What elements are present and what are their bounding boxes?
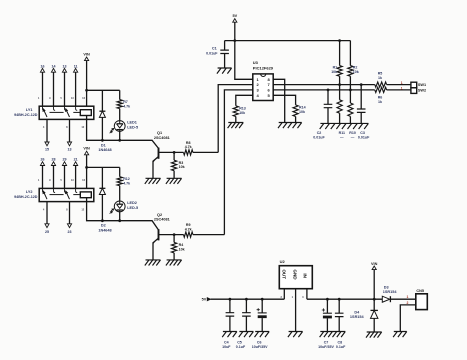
svg-text:VIN: VIN xyxy=(371,262,378,266)
regulator U2 xyxy=(279,266,312,289)
ground xyxy=(217,68,232,74)
wire base xyxy=(159,234,184,236)
resistor R11 xyxy=(337,100,342,113)
svg-text:R4: R4 xyxy=(179,243,184,247)
svg-text:C2: C2 xyxy=(317,131,322,135)
svg-text:1k: 1k xyxy=(378,100,382,104)
relay contact arm xyxy=(66,191,70,199)
svg-text:2SC4081: 2SC4081 xyxy=(154,136,170,140)
svg-text:LY1: LY1 xyxy=(26,108,33,112)
wire pin4 xyxy=(236,95,253,106)
diode D2 xyxy=(101,167,103,188)
connector SW1 xyxy=(411,82,417,88)
resistor R12 4.7k xyxy=(119,167,121,176)
svg-text:D2: D2 xyxy=(101,224,106,228)
capacitor C6 electrolytic xyxy=(261,299,263,313)
node xyxy=(261,298,264,301)
wire xyxy=(391,298,416,300)
node xyxy=(118,139,121,142)
wire IN pin xyxy=(306,289,308,300)
ground xyxy=(228,123,244,129)
resistor R4 10k xyxy=(173,235,175,243)
svg-text:VIN: VIN xyxy=(83,52,90,56)
ground bar xyxy=(320,332,346,338)
svg-text:LED-5: LED-5 xyxy=(127,206,138,210)
resistor R1 xyxy=(339,41,341,66)
svg-text:0.01uF: 0.01uF xyxy=(206,51,218,55)
svg-text:R1: R1 xyxy=(333,65,338,69)
svg-text:10k: 10k xyxy=(179,247,185,251)
svg-text:4.7k: 4.7k xyxy=(185,145,192,149)
relay LY1 coil xyxy=(80,110,91,116)
svg-text:R14: R14 xyxy=(299,106,306,110)
resistor R7 4.7k xyxy=(119,90,121,99)
wire rail xyxy=(87,166,120,168)
diode D1 xyxy=(101,90,103,111)
svg-text:C3: C3 xyxy=(360,131,365,135)
svg-text:5V: 5V xyxy=(232,14,237,18)
connector CN5 xyxy=(416,294,428,310)
ground xyxy=(393,332,407,338)
LED LED2 xyxy=(119,186,121,201)
resistor R13 xyxy=(233,106,238,117)
wire OUT pin xyxy=(283,289,285,300)
relay pin 13 xyxy=(69,119,71,142)
resistor R3 10k xyxy=(173,152,175,160)
transistor Q1 2SC4081 xyxy=(158,148,160,159)
relay LY2 coil xyxy=(80,192,91,198)
svg-text:1SR154: 1SR154 xyxy=(350,315,365,319)
node xyxy=(229,298,232,301)
ground xyxy=(166,178,182,184)
wire node xyxy=(87,119,159,148)
svg-text:1: 1 xyxy=(407,295,409,299)
diode D4 1SR154 xyxy=(371,309,378,311)
svg-text:Q1: Q1 xyxy=(157,131,162,135)
node xyxy=(373,298,376,301)
relay contact arm xyxy=(43,109,47,117)
ground xyxy=(222,332,237,338)
node xyxy=(85,89,88,92)
svg-text:23: 23 xyxy=(68,230,72,234)
wire pin2 xyxy=(218,85,253,153)
resistor R5 xyxy=(375,82,387,87)
svg-text:C7: C7 xyxy=(324,340,329,344)
svg-text:R2: R2 xyxy=(353,65,358,69)
relay contact arm xyxy=(43,191,47,199)
wire xyxy=(387,84,411,86)
svg-text:4.7k: 4.7k xyxy=(123,104,130,108)
svg-text:10k: 10k xyxy=(299,110,305,114)
svg-text:2: 2 xyxy=(407,301,409,305)
relay linkage xyxy=(50,194,64,196)
capacitor C7 electrolytic xyxy=(326,299,328,313)
svg-text:1SR154: 1SR154 xyxy=(383,290,398,294)
svg-text:4.7k: 4.7k xyxy=(185,227,192,231)
capacitor C1 xyxy=(224,41,226,51)
svg-text:R6: R6 xyxy=(378,96,383,100)
node xyxy=(245,298,248,301)
svg-text:15: 15 xyxy=(45,148,49,152)
wire base xyxy=(159,151,184,153)
svg-text:D1: D1 xyxy=(101,143,106,147)
svg-text:13: 13 xyxy=(68,148,72,152)
svg-text:10k: 10k xyxy=(179,165,185,169)
svg-text:Q2: Q2 xyxy=(157,213,162,217)
relay LY1 box xyxy=(39,106,94,119)
node xyxy=(233,39,236,42)
wire 5V rail xyxy=(225,40,351,42)
svg-text:U3: U3 xyxy=(253,60,259,65)
resistor R10 xyxy=(348,103,353,116)
svg-text:OUT: OUT xyxy=(281,269,286,279)
relay linkage xyxy=(50,111,64,113)
svg-text:C6: C6 xyxy=(257,340,262,344)
LED LED1 xyxy=(119,109,121,121)
svg-text:R7: R7 xyxy=(123,100,128,104)
svg-text:CN5: CN5 xyxy=(416,289,424,293)
ground xyxy=(239,332,254,338)
relay pin 15 xyxy=(46,119,48,142)
capacitor C3 xyxy=(360,85,362,109)
node xyxy=(338,298,341,301)
node xyxy=(101,219,104,222)
node xyxy=(85,166,88,169)
svg-text:C1: C1 xyxy=(212,46,217,50)
svg-text:D3: D3 xyxy=(384,285,389,289)
resistor R8 4.7k xyxy=(184,150,193,155)
wire GND pin xyxy=(295,289,297,332)
svg-text:0.1uF: 0.1uF xyxy=(236,345,246,349)
wire xyxy=(235,22,253,79)
ground xyxy=(288,332,303,338)
svg-text:5V: 5V xyxy=(202,298,207,302)
ground bar xyxy=(320,123,369,129)
relay pin 23 xyxy=(69,202,71,224)
svg-text:10k: 10k xyxy=(353,70,359,74)
wire node xyxy=(87,202,159,230)
svg-text:1: 1 xyxy=(401,81,403,85)
wire xyxy=(387,89,411,91)
svg-text:SW2: SW2 xyxy=(418,89,426,93)
capacitor C4 xyxy=(229,299,231,313)
svg-text:94BH-2C-12D: 94BH-2C-12D xyxy=(14,113,38,117)
resistor R14 xyxy=(293,105,298,117)
svg-text:1: 1 xyxy=(401,87,403,91)
svg-text:10k: 10k xyxy=(239,111,245,115)
svg-text:C4: C4 xyxy=(224,340,229,344)
relay contact arm xyxy=(66,109,70,117)
svg-text:R5: R5 xyxy=(378,72,383,76)
node xyxy=(326,298,329,301)
svg-text:—: — xyxy=(351,135,355,139)
ground xyxy=(166,260,182,266)
svg-text:R3: R3 xyxy=(179,161,184,165)
resistor R9 4.7k xyxy=(184,232,193,237)
svg-text:PIC12F629: PIC12F629 xyxy=(253,65,274,70)
capacitor C5 xyxy=(245,299,247,313)
node xyxy=(338,39,341,42)
svg-text:LED1: LED1 xyxy=(127,121,137,125)
svg-text:GND: GND xyxy=(293,269,298,280)
wire pin5 xyxy=(273,95,295,105)
node xyxy=(338,83,341,86)
svg-text:LED-5: LED-5 xyxy=(127,126,138,130)
node xyxy=(173,151,176,154)
ground xyxy=(278,123,302,129)
svg-text:10uF/35V: 10uF/35V xyxy=(318,345,334,349)
svg-text:0.1uF: 0.1uF xyxy=(336,345,346,349)
svg-text:25: 25 xyxy=(45,230,49,234)
transistor Q2 2SC4081 xyxy=(158,229,160,240)
svg-text:R11: R11 xyxy=(339,131,345,135)
wire pin8 xyxy=(273,79,285,122)
svg-text:—: — xyxy=(340,135,344,139)
node xyxy=(327,89,330,92)
wire pin3 xyxy=(224,90,252,235)
node xyxy=(173,233,176,236)
relay pin 25 xyxy=(46,202,48,224)
ground xyxy=(145,260,161,266)
svg-text:4.7k: 4.7k xyxy=(123,181,130,185)
relay LY2 box xyxy=(39,188,94,201)
wire xyxy=(211,298,285,300)
ground xyxy=(145,178,161,184)
svg-text:C5: C5 xyxy=(237,340,242,344)
svg-text:C8: C8 xyxy=(337,340,342,344)
svg-text:SW1: SW1 xyxy=(418,83,426,87)
svg-text:1N4648: 1N4648 xyxy=(98,228,111,232)
svg-text:1N4648: 1N4648 xyxy=(98,148,111,152)
svg-text:2SC4081: 2SC4081 xyxy=(154,217,170,221)
wire xyxy=(193,234,225,236)
svg-text:IN: IN xyxy=(303,273,308,278)
svg-text:0.01uF: 0.01uF xyxy=(313,135,325,139)
svg-text:10uF: 10uF xyxy=(222,345,231,349)
svg-text:0.01uF: 0.01uF xyxy=(358,135,370,139)
wire GP0 line xyxy=(273,84,375,86)
wire rail xyxy=(87,89,120,91)
node xyxy=(101,139,104,142)
ground xyxy=(366,332,382,338)
diode D3 1SR154 xyxy=(382,296,389,302)
resistor R2 xyxy=(349,41,351,66)
node xyxy=(349,89,352,92)
IC U3 PIC12F629 xyxy=(253,74,273,101)
wire VIN line xyxy=(307,298,382,300)
svg-text:U2: U2 xyxy=(280,259,286,264)
svg-text:10k: 10k xyxy=(331,70,337,74)
resistor R6 xyxy=(375,87,387,92)
wire CN5 pin2 xyxy=(400,305,416,332)
svg-text:LED2: LED2 xyxy=(127,201,137,205)
svg-text:R10: R10 xyxy=(349,131,356,135)
ground xyxy=(255,332,270,338)
svg-text:R13: R13 xyxy=(239,106,246,110)
svg-text:R12: R12 xyxy=(123,177,130,181)
svg-text:VIN: VIN xyxy=(83,147,90,151)
svg-text:1k: 1k xyxy=(378,76,382,80)
capacitor C2 xyxy=(327,90,329,104)
wire xyxy=(193,151,218,153)
svg-text:LY2: LY2 xyxy=(26,190,33,194)
svg-text:10uF/35V: 10uF/35V xyxy=(252,345,268,349)
wire GP1 line xyxy=(273,89,375,91)
svg-text:94BH-2C-12D: 94BH-2C-12D xyxy=(14,195,38,199)
capacitor C8 xyxy=(338,299,340,313)
node xyxy=(118,219,121,222)
node xyxy=(360,83,363,86)
